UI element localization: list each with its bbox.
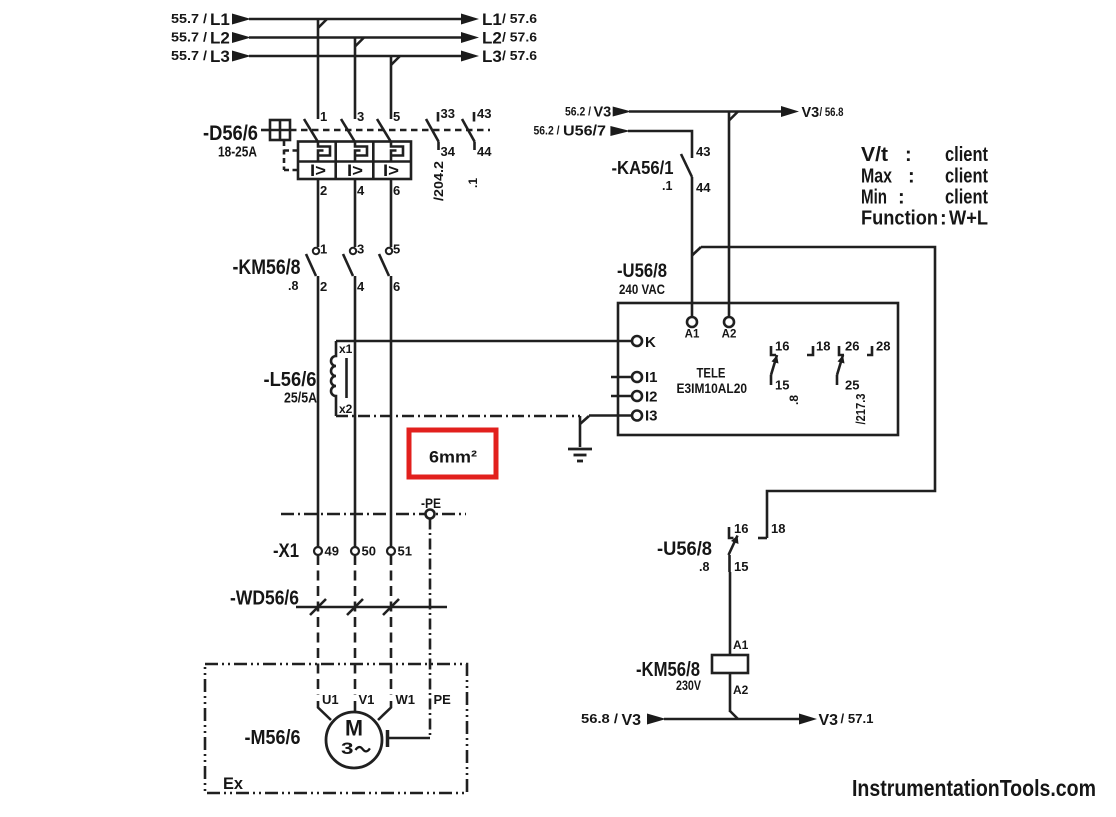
svg-text:client: client: [945, 187, 988, 209]
node U56/7 incoming arrow: [610, 126, 630, 136]
node V3 56.8 outgoing arrow: [781, 106, 799, 117]
svg-text:-U56/8: -U56/8: [617, 261, 667, 282]
node L2 outgoing arrow 57.6: [461, 32, 479, 43]
wire V3 branch to A2 with jog: [729, 112, 738, 318]
svg-text:-L56/6: -L56/6: [264, 369, 317, 391]
svg-text:.1: .1: [466, 178, 480, 188]
terminal X1:50: [351, 547, 359, 555]
node V3 57.1 outgoing arrow: [799, 714, 817, 725]
wire KA 44 to A1: [691, 177, 694, 317]
svg-text:-M56/6: -M56/6: [245, 727, 301, 749]
svg-text:TELE: TELE: [697, 366, 726, 381]
motor M56/6 circle: [326, 712, 382, 768]
motor PE terminal bar: [388, 730, 431, 747]
svg-text:6mm²: 6mm²: [429, 448, 477, 467]
svg-text:1: 1: [320, 109, 327, 124]
contactor coil KM56/8: [712, 655, 748, 673]
svg-text:E3IM10AL20: E3IM10AL20: [677, 380, 748, 396]
wire pole1 breaker to contactor: [317, 179, 320, 247]
wire pole1 contactor to X1: [317, 276, 320, 547]
svg-text:-X1: -X1: [273, 541, 299, 562]
ground symbol: [568, 449, 592, 461]
svg-text:Max: Max: [861, 166, 892, 188]
terminal -PE circle: [426, 510, 435, 519]
svg-text:44: 44: [477, 144, 492, 159]
svg-text:44: 44: [696, 180, 711, 195]
node L3 incoming arrow 55.7/L3: [232, 51, 251, 62]
breaker D56/6 pole 1 contact: [304, 119, 318, 142]
breaker D56/6 mechanical linkage dashed line: [290, 129, 490, 132]
svg-text:/ 57.6: / 57.6: [502, 12, 537, 26]
svg-text:3: 3: [357, 242, 364, 257]
svg-text:16: 16: [775, 339, 789, 354]
wire W to motor dashed: [390, 555, 393, 695]
node L1 outgoing arrow 57.6: [461, 14, 479, 25]
svg-text:A1: A1: [685, 329, 700, 341]
svg-text::: :: [898, 187, 905, 209]
svg-text:2: 2: [320, 279, 327, 294]
svg-text:V/t: V/t: [861, 144, 888, 166]
breaker thermal element pole 3: [391, 142, 403, 162]
svg-text:/217.3: /217.3: [853, 394, 868, 425]
current transformer L56/6 secondary winding: [331, 341, 347, 416]
svg-text:W1: W1: [396, 692, 416, 707]
svg-text:18: 18: [771, 521, 785, 536]
svg-text:33: 33: [441, 106, 455, 121]
motor lead V1: [354, 701, 357, 712]
wire CT x2 dash-dot to ground and I3: [336, 416, 632, 448]
svg-text:56.2 /: 56.2 /: [534, 124, 561, 138]
wire V3 bottom horizontal: [664, 718, 801, 721]
breaker thermal element pole 1: [318, 142, 330, 162]
svg-text:/ 57.1: / 57.1: [841, 712, 874, 726]
wire pole3 contactor to X1: [390, 276, 393, 547]
contactor KM56/8 pole 1: [306, 248, 319, 276]
wire L3 horizontal: [249, 55, 464, 58]
relay terminal K: [632, 336, 642, 346]
breaker aux contact 33/34: [426, 112, 439, 150]
wire U56/7 to KA contact: [628, 131, 692, 158]
svg-text:/ 56.8: / 56.8: [820, 105, 844, 119]
breaker D56/6 pole 3 contact: [377, 119, 391, 142]
svg-text:client: client: [945, 166, 988, 188]
wire pole3 breaker to contactor: [390, 179, 393, 247]
svg-text:16: 16: [734, 521, 748, 536]
svg-text:25/5A: 25/5A: [284, 390, 317, 407]
svg-text:/ 57.6: / 57.6: [502, 31, 537, 45]
svg-text:2: 2: [320, 183, 327, 198]
svg-text:43: 43: [696, 144, 710, 159]
breaker D56/6 trip linkage dashed bracket: [284, 141, 298, 170]
svg-text:I>: I>: [310, 161, 326, 180]
svg-text:.8: .8: [787, 395, 801, 405]
svg-text:50: 50: [362, 544, 376, 559]
wire L2 horizontal: [249, 36, 464, 39]
svg-text:55.7 /: 55.7 /: [171, 49, 208, 63]
svg-text:5: 5: [393, 109, 400, 124]
svg-text:.1: .1: [662, 179, 672, 193]
svg-text:I1: I1: [645, 369, 658, 386]
svg-text:26: 26: [845, 339, 859, 354]
relay U56/8 box: [618, 303, 898, 435]
svg-text:28: 28: [876, 339, 890, 354]
svg-text:-KA56/1: -KA56/1: [612, 158, 674, 178]
relay terminal A1: [687, 317, 697, 327]
svg-text:.8: .8: [699, 560, 709, 574]
wire pole2 contactor to X1: [354, 276, 357, 547]
relay terminal I2: [611, 391, 642, 401]
wire PE dash-dot down: [429, 519, 432, 739]
svg-text:L3: L3: [210, 47, 230, 66]
relay output contact U56/8 15/16/18 lower: [729, 527, 739, 572]
cable WD56/6 marker: [296, 599, 447, 615]
svg-text:-D56/6: -D56/6: [203, 122, 258, 145]
svg-text:U56/7: U56/7: [563, 124, 606, 140]
node V3 56.8 incoming arrow bottom: [647, 714, 666, 725]
svg-text:Ex: Ex: [223, 774, 244, 793]
svg-text:K: K: [645, 334, 656, 351]
svg-text:3: 3: [341, 739, 354, 758]
wire V3 horizontal: [629, 110, 783, 113]
motor lead W1: [378, 701, 391, 720]
svg-text:Min: Min: [861, 187, 887, 209]
svg-text::: :: [940, 208, 947, 230]
svg-text:A2: A2: [733, 683, 749, 697]
svg-text:240 VAC: 240 VAC: [619, 281, 665, 297]
relay contact KA56/1 43/44: [681, 154, 692, 177]
svg-text:/ 57.6: / 57.6: [502, 49, 537, 63]
svg-text:6: 6: [393, 183, 400, 198]
contactor KM56/8 pole 3: [379, 248, 392, 276]
svg-text:56.8 /: 56.8 /: [581, 712, 619, 726]
svg-text:-U56/8: -U56/8: [657, 539, 712, 560]
terminal X1:51: [387, 547, 395, 555]
svg-text:I2: I2: [645, 389, 658, 406]
svg-text:55.7 /: 55.7 /: [171, 31, 208, 45]
svg-text:I>: I>: [383, 161, 399, 180]
svg-text:4: 4: [357, 279, 365, 294]
relay terminal I3: [632, 411, 642, 421]
svg-text:56.2 /: 56.2 /: [565, 105, 592, 119]
relay internal contact 15/16/18: [771, 346, 813, 385]
svg-text:4: 4: [357, 183, 365, 198]
svg-text:W+L: W+L: [949, 208, 988, 230]
wire L3 drop with branch jog: [391, 56, 400, 119]
svg-text::: :: [908, 166, 915, 188]
svg-text:25: 25: [845, 378, 859, 393]
wire L2 drop with branch jog: [355, 38, 364, 120]
svg-text:18: 18: [816, 339, 830, 354]
svg-text:15: 15: [734, 559, 748, 574]
svg-text:18-25A: 18-25A: [218, 144, 257, 161]
svg-text:x2: x2: [339, 402, 353, 416]
wire CT x1 to relay K: [336, 340, 632, 343]
svg-text:L3: L3: [482, 47, 502, 66]
svg-text:55.7 /: 55.7 /: [171, 12, 208, 26]
svg-text:V3: V3: [594, 105, 612, 121]
svg-text:51: 51: [398, 544, 412, 559]
svg-text:V1: V1: [359, 692, 375, 707]
svg-text:I>: I>: [347, 161, 363, 180]
svg-text:x1: x1: [339, 342, 353, 356]
svg-text:49: 49: [325, 544, 339, 559]
svg-text:-KM56/8: -KM56/8: [233, 256, 301, 279]
svg-text:5: 5: [393, 242, 400, 257]
svg-text:M: M: [345, 716, 363, 741]
wire L1 horizontal: [249, 18, 464, 21]
wire V to motor dashed: [354, 555, 357, 695]
terminal X1:49: [314, 547, 322, 555]
wire 15 to KM coil A1: [729, 572, 732, 655]
node L3 outgoing arrow 57.6: [461, 51, 479, 62]
relay internal contact 25/26/28: [837, 346, 872, 385]
Ex hazardous area box: [205, 664, 467, 793]
wire coil A2 to V3 rail with jog: [730, 673, 738, 719]
breaker D56/6 manual operator square: [261, 120, 290, 140]
svg-text:L1: L1: [482, 10, 502, 29]
svg-text:L2: L2: [482, 29, 502, 48]
svg-text:6: 6: [393, 279, 400, 294]
breaker D56/6 overload box: [298, 142, 411, 180]
panel boundary dash-dot line: [281, 513, 466, 516]
svg-text::: :: [905, 144, 912, 166]
pin 18 bracket lower: [758, 537, 767, 540]
svg-text:34: 34: [441, 144, 456, 159]
breaker D56/6 pole 2 contact: [341, 119, 355, 142]
svg-text:-PE: -PE: [421, 495, 441, 511]
node V3 56.2 incoming arrow: [613, 107, 632, 117]
svg-text:A1: A1: [733, 638, 749, 652]
motor tilde symbol: [356, 747, 370, 751]
node L1 incoming arrow 55.7/L1: [232, 14, 251, 25]
svg-text:230V: 230V: [676, 677, 702, 693]
svg-text:U1: U1: [322, 692, 339, 707]
svg-text:-WD56/6: -WD56/6: [230, 588, 299, 610]
motor lead U1: [318, 701, 331, 720]
svg-text:L2: L2: [210, 29, 230, 48]
node L2 incoming arrow 55.7/L2: [232, 32, 251, 43]
svg-text:A2: A2: [722, 329, 737, 341]
svg-text:Function: Function: [861, 208, 938, 230]
settings text block: [861, 144, 988, 230]
svg-text:V3: V3: [622, 712, 642, 729]
wire U to motor dashed: [317, 555, 320, 695]
relay terminal A2: [724, 317, 734, 327]
svg-text:I3: I3: [645, 408, 658, 425]
svg-text:/204.2: /204.2: [431, 161, 446, 201]
wire L1 drop with branch jog: [318, 19, 327, 119]
svg-text:.8: .8: [288, 279, 298, 293]
svg-text:client: client: [945, 144, 988, 166]
svg-text:PE: PE: [434, 692, 452, 707]
svg-text:V3: V3: [819, 712, 839, 729]
6mm2 red callout box: [409, 430, 496, 477]
svg-text:1: 1: [320, 242, 327, 257]
wire pole2 breaker to contactor: [354, 179, 357, 247]
svg-text:3: 3: [357, 109, 364, 124]
relay terminal I1: [611, 372, 642, 382]
svg-text:43: 43: [477, 106, 491, 121]
wire A1 branch jog to right rail: [692, 247, 935, 538]
svg-text:V3: V3: [802, 105, 820, 121]
svg-text:L1: L1: [210, 10, 230, 29]
svg-text:InstrumentationTools.com: InstrumentationTools.com: [852, 775, 1096, 801]
breaker aux contact 43/44: [462, 112, 475, 150]
contactor KM56/8 pole 2: [343, 248, 356, 276]
svg-text:15: 15: [775, 378, 789, 393]
breaker thermal element pole 2: [355, 142, 367, 162]
